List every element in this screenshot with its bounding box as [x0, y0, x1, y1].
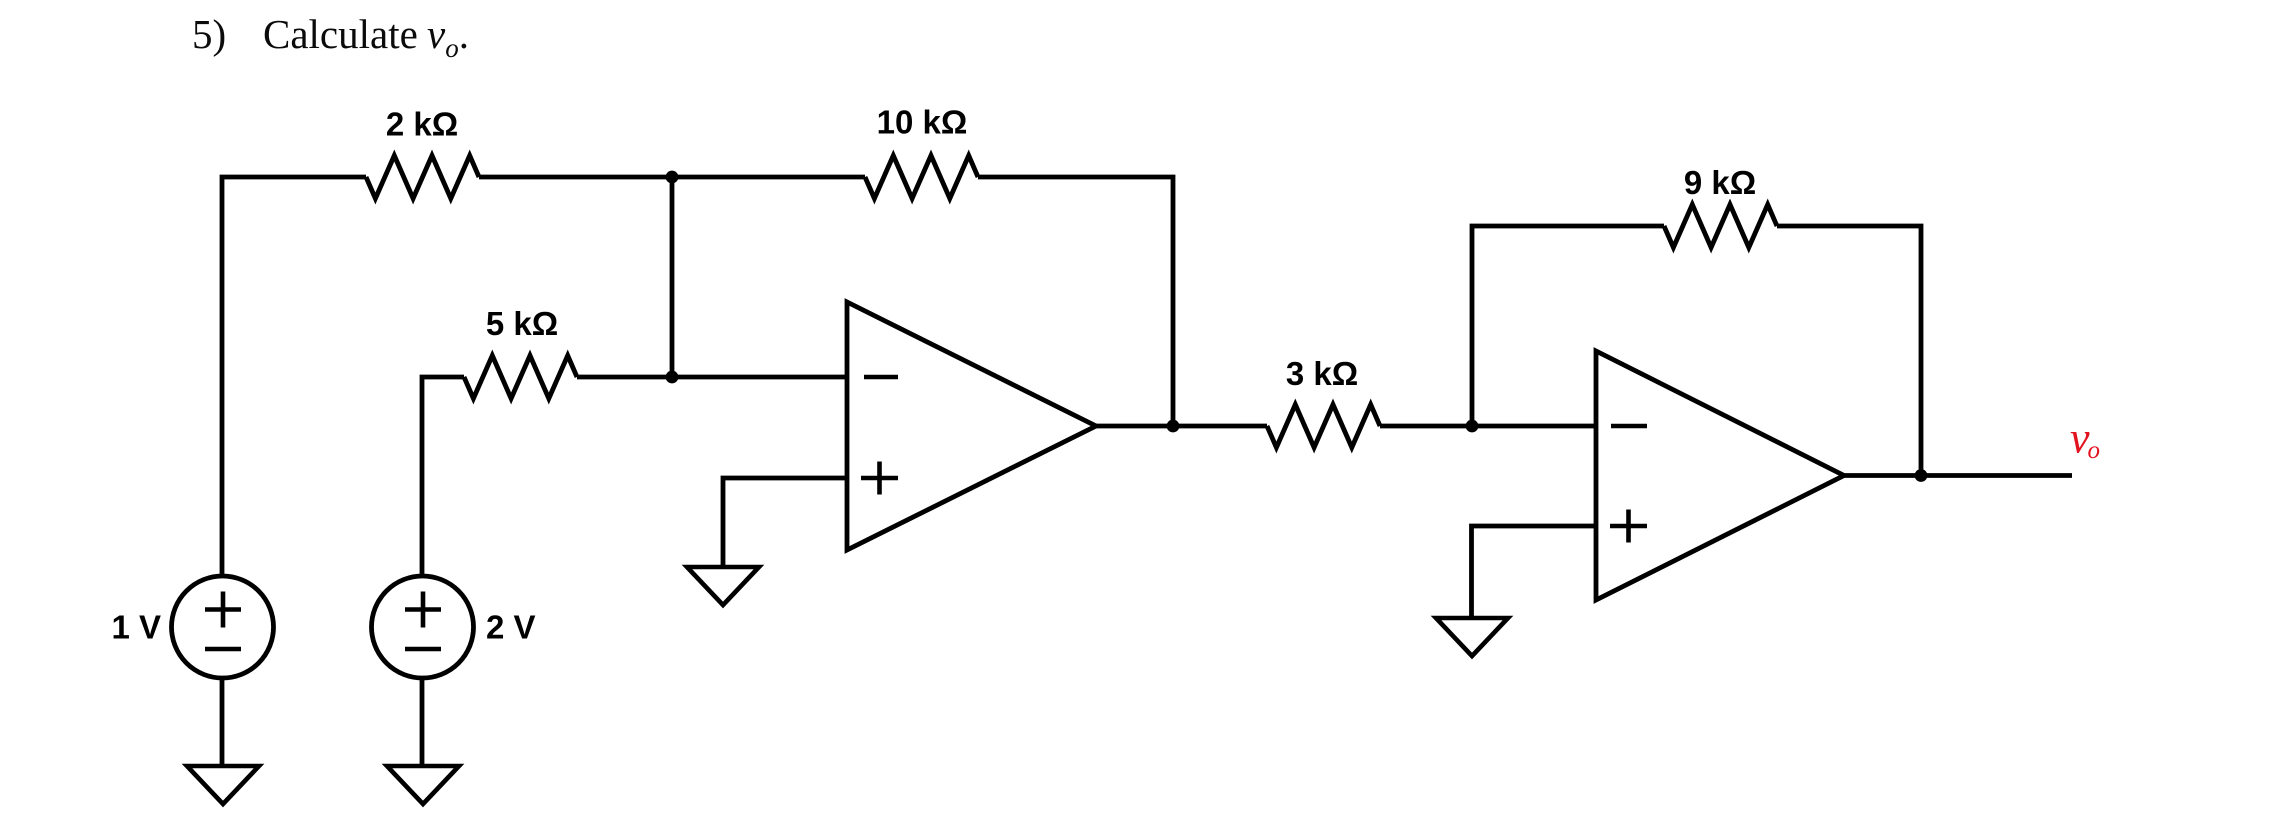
op-amp U1 — [847, 302, 1096, 550]
svg-text:3 kΩ: 3 kΩ — [1286, 355, 1358, 392]
svg-text:vo: vo — [2070, 414, 2100, 465]
junction dot top (inverting node, top wire) — [666, 171, 679, 184]
wire: op-amp U2 non-inverting input to ground stub — [1472, 526, 1597, 618]
op-amp U2 minus sign — [1611, 424, 1647, 429]
junction dot at op-amp U2 output node — [1915, 469, 1928, 482]
ground (1 V source) — [187, 766, 259, 804]
op-amp U1 plus sign — [861, 462, 898, 495]
svg-text:5)Calculatevo.: 5)Calculatevo. — [192, 11, 469, 63]
wire: junction node to 10 kOhm left terminal — [672, 175, 865, 180]
resistor 5 kOhm — [464, 356, 577, 399]
wire: op-amp U1 output to 3 kOhm left terminal — [1096, 424, 1267, 429]
svg-text:1 V: 1 V — [111, 609, 161, 646]
wire: 10 kOhm right terminal down to op-amp U1 output node — [978, 177, 1173, 426]
voltage source V1 plus sign — [205, 592, 241, 628]
wire: 3 kOhm right terminal to op-amp U2 inverting input — [1380, 424, 1596, 429]
svg-text:10 kΩ: 10 kΩ — [877, 104, 968, 141]
voltage source V1 1 V — [172, 576, 274, 678]
resistor 9 kOhm — [1664, 205, 1777, 248]
wire: vertical junction tie between top wire and inverting input wire — [670, 177, 675, 377]
op-amp U1 minus sign — [864, 375, 898, 380]
svg-text:2 V: 2 V — [486, 609, 536, 646]
wire: 9 kOhm right terminal down to op-amp U2 output node — [1777, 226, 1921, 476]
voltage source V2 2 V — [372, 576, 474, 678]
resistor 2 kOhm — [366, 156, 479, 199]
svg-text:5 kΩ: 5 kΩ — [486, 305, 558, 342]
junction dot at op-amp U1 output node — [1167, 420, 1180, 433]
wire: 2 V source bottom to ground — [420, 678, 425, 766]
resistor 10 kOhm — [865, 156, 978, 199]
junction dot at op-amp U2 inverting input node — [1466, 420, 1479, 433]
wire: 1 V source up and right to 2 kOhm left terminal — [222, 177, 366, 576]
wire: 5 kOhm right terminal to op-amp U1 inverting input — [577, 375, 847, 380]
ground (op-amp U1 non-inverting input) — [687, 567, 759, 605]
op-amp U2 plus sign — [1610, 510, 1647, 543]
op-amp U2 — [1596, 351, 1844, 600]
wire: 2 V source up and right to 5 kOhm left terminal — [422, 377, 464, 576]
svg-text:9 kΩ: 9 kΩ — [1684, 164, 1756, 201]
ground (2 V source) — [387, 766, 459, 804]
svg-text:2 kΩ: 2 kΩ — [386, 106, 458, 143]
ground (op-amp U2 non-inverting input) — [1436, 618, 1508, 656]
voltage source V2 plus sign — [405, 592, 441, 628]
junction dot at op-amp U1 inverting input node — [666, 371, 679, 384]
wire: 2 kOhm right terminal to junction node — [479, 175, 672, 180]
voltage source V1 minus sign — [205, 647, 241, 652]
resistor 3 kOhm — [1267, 405, 1380, 448]
voltage source V2 minus sign — [405, 647, 441, 652]
wire: op-amp U2 output to vo terminal — [1844, 473, 2072, 478]
wire: 1 V source bottom to ground — [220, 678, 225, 766]
wire: op-amp U1 non-inverting input to ground stub — [723, 478, 847, 567]
wire: feedback from U2 inverting node up to 9 kOhm left terminal — [1472, 226, 1664, 426]
